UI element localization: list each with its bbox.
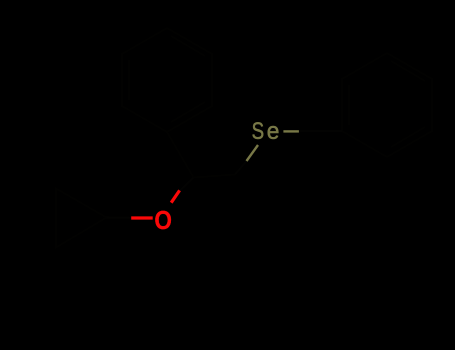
- svg-text:e: e: [267, 117, 280, 144]
- bond O-ringC carbon half (faint): [107, 217, 132, 219]
- bond C1-ringA (faint): [167, 132, 194, 178]
- svg-text:O: O: [154, 206, 172, 235]
- ring C (cyclopropyl on O): faint triangle: [56, 189, 107, 248]
- bond C1-O oxygen half (bright red diagonal): [171, 190, 179, 202]
- bond Se-ringB carbon half (faint): [299, 130, 342, 132]
- bond Se-C2 selenium half (bright olive diagonal): [247, 145, 259, 161]
- bond C2-Se carbon half (faint): [235, 161, 247, 175]
- ring B inner aromatic lines: [349, 61, 425, 147]
- svg-text:S: S: [252, 118, 264, 145]
- ring B (phenyl on Se): faint hexagon: [342, 53, 432, 157]
- ring A inner aromatic lines: [129, 36, 205, 122]
- bond O-ringC oxygen half (bright red dash): [131, 216, 153, 219]
- ring A (phenyl on C1): faint hexagon: [122, 28, 212, 132]
- bond C1-O carbon half (faint): [180, 178, 194, 191]
- bond C1-C2 (faint): [194, 175, 236, 178]
- bond Se-ringB selenium half (bright olive dash): [283, 130, 299, 132]
